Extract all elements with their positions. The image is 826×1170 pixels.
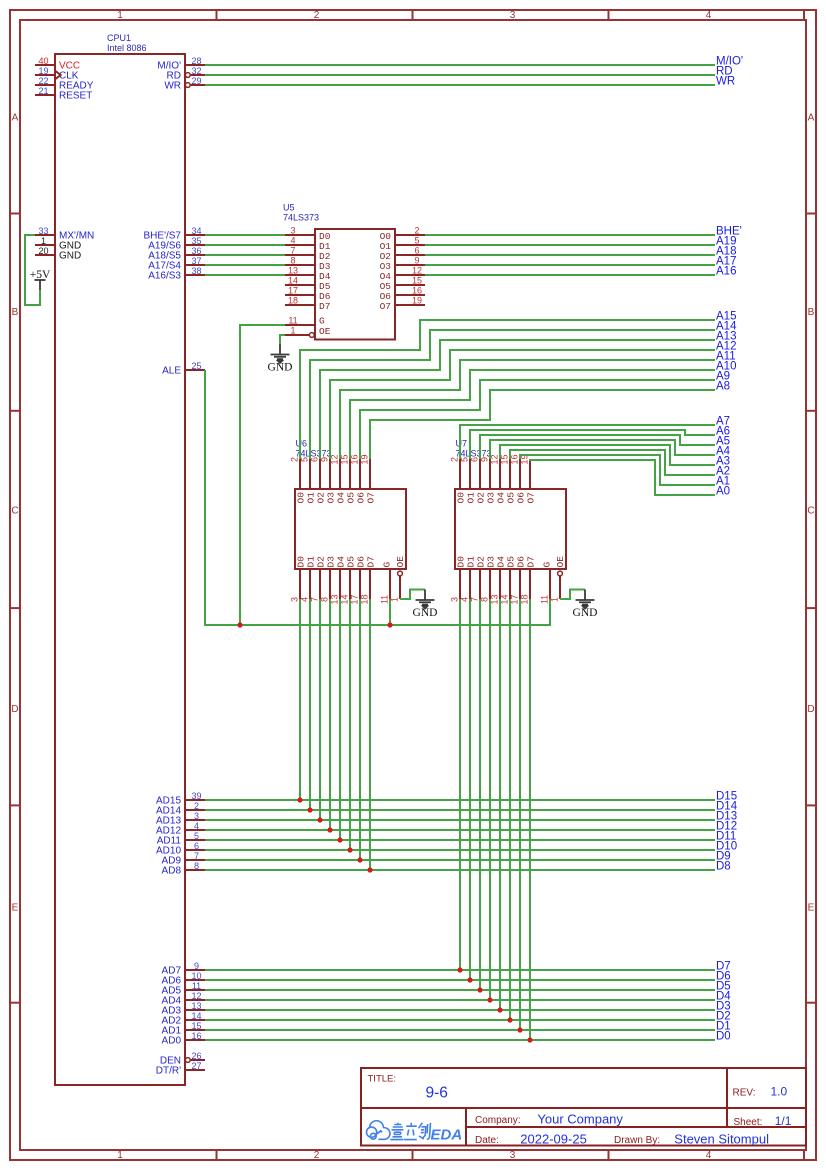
wire ALE from CPU1 pin 25 to U7 G [205,370,550,625]
CPU1 pin 27 DT/R' (right) [185,1069,205,1071]
U7 pin 14 D5 (bottom) [509,569,511,599]
svg-text:15: 15 [412,276,422,286]
U5 pin 16 O6 (right) [395,294,425,296]
svg-text:4: 4 [706,1150,712,1161]
wire A0 from label to U7 O7 [530,459,715,495]
wire U6 D6 to AD9 bus [359,599,361,860]
frame column ticks top [216,10,218,20]
wire AD8/D8 from CPU1 to label [205,869,715,871]
svg-text:10: 10 [191,971,201,981]
svg-text:DT/R': DT/R' [156,1066,181,1077]
wire U7 D4 to AD3 bus [499,599,501,1010]
CPU1 pin 4 AD12 (right) [185,829,205,831]
svg-text:34: 34 [191,226,201,236]
wire A9 from label to U6 O6 [360,380,715,459]
junction AD13 at U6 D2 [317,817,322,822]
svg-text:OE: OE [395,556,406,568]
svg-text:Sheet:: Sheet: [734,1117,763,1128]
CPU1 pin 19 CLK (left) [35,74,55,76]
wire A18 net U5 O2 to label [425,254,715,256]
U5 pin 8 D3 (left) [285,264,315,266]
CPU1 pin 34 BHE'/S7 (right) [185,234,205,236]
wire U6 D2 to AD13 bus [319,599,321,820]
wire A7 from label to U7 O0 [460,425,715,459]
wire U7 OE to ground [560,590,585,600]
U5 pin 19 O7 (right) [395,304,425,306]
wire A19 net U5 O1 to label [425,244,715,246]
wire U7 D6 to AD1 bus [519,599,521,1030]
U6 pin 14 D5 (bottom) [349,569,351,599]
U7 pin 7 D2 (bottom) [479,569,481,599]
svg-text:9: 9 [194,961,199,971]
frame column ticks bottom [216,1150,218,1160]
U5 pin 3 D0 (left) [285,234,315,236]
svg-text:37: 37 [191,256,201,266]
svg-text:D7: D7 [526,556,537,567]
U7 pin 11 G (bottom) [549,569,551,599]
svg-text:WR: WR [716,76,735,88]
U6 pin 11 G (bottom) [389,569,391,599]
wire WR from CPU1 pin 29 to label [205,84,715,86]
svg-text:AD0: AD0 [162,1036,182,1047]
CPU1 pin 22 READY (left) [35,84,55,86]
CPU1 pin 37 A17/S4 (right) [185,264,205,266]
frame row ticks right [806,213,816,215]
svg-text:13: 13 [288,266,298,276]
U6 pin 8 D3 (bottom) [329,569,331,599]
svg-text:26: 26 [191,1051,201,1061]
wire A16 net CPU1 to U5 D4 [205,274,285,276]
U5 pin 1 OE (left, inverted) [285,334,309,336]
CPU1 pin 33 MX'/MN (left) [35,234,55,236]
svg-text:1: 1 [290,326,295,336]
svg-text:E: E [808,903,815,914]
wire A5 from label to U7 O2 [480,435,715,459]
junction ALE at U5 branch [237,622,242,627]
svg-text:A: A [12,113,19,124]
latch U6 74LS373 symbol body [295,489,406,569]
U6 pin 19 O7 (top) [369,459,371,489]
svg-text:G: G [542,562,553,568]
svg-text:11: 11 [540,595,550,604]
CPU1 pin 6 AD10 (right) [185,849,205,851]
svg-text:16: 16 [191,1031,201,1041]
svg-text:3: 3 [510,1150,516,1161]
svg-text:32: 32 [191,66,201,76]
CPU1 pin 7 AD9 (right) [185,859,205,861]
junction AD8 at U6 D7 [367,867,372,872]
wire A2 from label to U7 O5 [510,450,715,475]
svg-text:1.0: 1.0 [771,1084,788,1098]
wire A18 net CPU1 to U5 D2 [205,254,285,256]
U7 pin 17 D6 (bottom) [519,569,521,599]
svg-text:REV:: REV: [733,1088,756,1099]
svg-text:O7: O7 [526,492,537,503]
wire U6 OE to ground [400,590,425,600]
wire A13 from label to U6 O2 [320,340,715,459]
title block outline [361,1068,806,1146]
svg-text:TITLE:: TITLE: [368,1074,397,1085]
wire AD15/D15 from CPU1 to label [205,799,715,801]
svg-text:33: 33 [38,226,48,236]
U7 pin 5 O1 (top) [469,459,471,489]
svg-text:A8: A8 [716,381,730,393]
U6 pin 15 O5 (top) [349,459,351,489]
U6 pin 2 O0 (top) [299,459,301,489]
junction AD7 at U7 D0 [457,967,462,972]
svg-text:2: 2 [314,1150,320,1161]
U7 pin 1 OE (bottom, inverted) [559,576,561,599]
wire ALE branch U6 G [389,599,391,625]
svg-text:3: 3 [450,597,460,602]
svg-text:E: E [12,903,19,914]
svg-text:2: 2 [450,457,460,462]
wire M/IO' from CPU1 pin 28 to label [205,64,715,66]
U6 pin 3 D0 (bottom) [299,569,301,599]
title block column divider logo cell [465,1108,467,1146]
svg-text:12: 12 [412,266,422,276]
svg-text:D: D [807,704,814,715]
ground symbol GND at U7 OE [573,590,598,620]
junction AD11 at U6 D4 [337,837,342,842]
wire +5V to CPU1 pin 33 MX'/MN [25,235,40,305]
wire ALE branch U5 G [240,325,285,625]
CPU1 pin 29 WR (right) [190,84,205,86]
svg-text:OE: OE [319,326,331,337]
svg-text:12: 12 [191,991,201,1001]
svg-text:3: 3 [510,10,516,21]
wire AD14/D14 from CPU1 to label [205,809,715,811]
CPU1 pin 8 AD8 (right) [185,869,205,871]
junction AD1 at U7 D6 [517,1027,522,1032]
svg-text:1: 1 [41,236,46,246]
wire A1 from label to U7 O6 [520,455,715,485]
svg-text:G: G [382,562,393,568]
junction AD3 at U7 D4 [497,1007,502,1012]
svg-text:8: 8 [194,861,199,871]
svg-text:6: 6 [414,246,419,256]
svg-text:29: 29 [191,76,201,86]
U5 pin 15 O5 (right) [395,284,425,286]
U5 pin 13 D4 (left) [285,274,315,276]
svg-text:G: G [319,315,325,326]
svg-text:11: 11 [380,595,390,604]
U5 pin 12 O4 (right) [395,274,425,276]
svg-text:9-6: 9-6 [426,1085,448,1102]
CPU1 pin 5 AD11 (right) [185,839,205,841]
wire A17 net U5 O3 to label [425,264,715,266]
svg-text:EDA: EDA [431,1127,463,1144]
wire U6 D5 to AD10 bus [349,599,351,850]
wire A10 from label to U6 O5 [350,370,715,459]
svg-text:19: 19 [412,296,422,306]
svg-text:Steven Sitompul: Steven Sitompul [674,1132,769,1147]
svg-text:3: 3 [290,226,295,236]
svg-text:U6: U6 [296,439,308,449]
title block column divider REV/Sheet [726,1068,728,1127]
U7 pin 13 D4 (bottom) [499,569,501,599]
U5 pin 9 O3 (right) [395,264,425,266]
wire A16 net U5 O4 to label [425,274,715,276]
U6 pin 17 D6 (bottom) [359,569,361,599]
U6 pin 12 O4 (top) [339,459,341,489]
svg-text:38: 38 [191,266,201,276]
junction AD6 at U7 D1 [467,977,472,982]
wire U6 D1 to AD14 bus [309,599,311,810]
svg-text:U5: U5 [283,203,295,213]
svg-text:40: 40 [38,56,48,66]
CPU1 pin 2 AD14 (right) [185,809,205,811]
CPU1 pin 38 A16/S3 (right) [185,274,205,276]
U6 pin 4 D1 (bottom) [309,569,311,599]
svg-text:U7: U7 [456,439,468,449]
svg-text:O7: O7 [366,492,377,503]
U7 pin 15 O5 (top) [509,459,511,489]
CPU1 pin 9 AD7 (right) [185,969,205,971]
U5 pin 5 O1 (right) [395,244,425,246]
CPU1 pin 16 AD0 (right) [185,1039,205,1041]
JLCEDA logo cloud icon [367,1121,390,1140]
wire AD12/D12 from CPU1 to label [205,829,715,831]
svg-text:2: 2 [290,457,300,462]
wire AD11/D11 from CPU1 to label [205,839,715,841]
svg-text:OE: OE [555,556,566,568]
U6 pin 13 D4 (bottom) [339,569,341,599]
svg-text:GND: GND [573,607,598,619]
CPU1 pin 25 ALE (right) [185,369,205,371]
svg-text:CPU1: CPU1 [107,33,131,43]
svg-text:11: 11 [288,316,297,326]
CPU1 pin 21 RESET (left) [35,94,55,96]
wire AD9/D9 from CPU1 to label [205,859,715,861]
wire A6 from label to U7 O1 [470,430,715,459]
svg-text:GND: GND [59,251,81,262]
U5 pin 17 D6 (left) [285,294,315,296]
svg-text:9: 9 [414,256,419,266]
CPU1 pin 13 AD3 (right) [185,1009,205,1011]
svg-text:A0: A0 [716,486,730,498]
wire A11 from label to U6 O4 [340,360,715,459]
svg-text:14: 14 [288,276,298,286]
U5 pin 11 G (left) [285,324,315,326]
junction AD4 at U7 D3 [487,997,492,1002]
svg-text:13: 13 [191,1001,201,1011]
wire U6 D7 to AD8 bus [369,599,371,870]
svg-text:2: 2 [194,801,199,811]
wire BHE'/S7 net CPU1 to U5 D0 [205,234,285,236]
junction AD0 at U7 D7 [527,1037,532,1042]
svg-text:74LS373: 74LS373 [283,213,319,223]
CPU1 pin 15 AD1 (right) [185,1029,205,1031]
wire AD6/D6 from CPU1 to label [205,979,715,981]
wire U7 D0 to AD7 bus [459,599,461,970]
svg-text:28: 28 [191,56,201,66]
wire AD7/D7 from CPU1 to label [205,969,715,971]
wire U6 D4 to AD11 bus [339,599,341,840]
svg-text:C: C [11,506,18,517]
frame row ticks left [10,213,20,215]
svg-text:4: 4 [290,236,295,246]
svg-text:2: 2 [314,10,320,21]
ground symbol GND at U5 OE [268,344,293,374]
latch U7 74LS373 symbol body [455,489,566,569]
U5 pin 14 D5 (left) [285,284,315,286]
wire A3 from label to U7 O4 [500,445,715,465]
svg-text:D0: D0 [716,1031,731,1043]
U5 pin 4 D1 (left) [285,244,315,246]
svg-text:WR: WR [164,81,181,92]
svg-text:27: 27 [191,1061,201,1071]
U6 pin 7 D2 (bottom) [319,569,321,599]
CPU1 pin 14 AD2 (right) [185,1019,205,1021]
wire U7 D7 to AD0 bus [529,599,531,1040]
U7 pin 9 O3 (top) [489,459,491,489]
svg-text:15: 15 [191,1021,201,1031]
svg-text:7: 7 [290,246,295,256]
CPU1 pin 20 GND (left) [35,254,55,256]
svg-text:D7: D7 [319,301,330,312]
wire A15 from label to U6 O0 [300,320,715,459]
svg-text:AD8: AD8 [162,866,182,877]
svg-text:11: 11 [192,981,201,991]
wire U7 D3 to AD4 bus [489,599,491,1000]
wire U5 OE to ground [280,335,285,344]
wire U7 D5 to AD2 bus [509,599,511,1020]
wire U6 D3 to AD12 bus [329,599,331,830]
wire AD4/D4 from CPU1 to label [205,999,715,1001]
svg-text:A16/S3: A16/S3 [148,271,181,282]
svg-text:3: 3 [290,597,300,602]
svg-text:D: D [11,704,18,715]
svg-text:A: A [808,113,815,124]
CPU1 pin 1 GND (left) [35,244,55,246]
svg-text:21: 21 [38,86,48,96]
svg-text:Intel 8086: Intel 8086 [107,43,147,53]
+5V power symbol [30,269,51,290]
wire A17 net CPU1 to U5 D3 [205,264,285,266]
wire A4 from label to U7 O3 [490,440,715,459]
svg-text:4: 4 [706,10,712,21]
svg-text:RESET: RESET [59,91,92,102]
wire BHE'/S7 net U5 O0 to label [425,234,715,236]
CPU1 pin 39 AD15 (right) [185,799,205,801]
svg-text:A16: A16 [716,266,736,278]
svg-text:2: 2 [414,226,419,236]
wire AD2/D2 from CPU1 to label [205,1019,715,1021]
svg-text:8: 8 [290,256,295,266]
wire AD0/D0 from CPU1 to label [205,1039,715,1041]
wire AD10/D10 from CPU1 to label [205,849,715,851]
U7 pin 12 O4 (top) [499,459,501,489]
U7 pin 19 O7 (top) [529,459,531,489]
svg-text:B: B [12,307,19,318]
junction AD2 at U7 D5 [507,1017,512,1022]
svg-text:16: 16 [412,286,422,296]
svg-text:C: C [807,506,814,517]
svg-text:1/1: 1/1 [775,1114,792,1128]
svg-text:Your Company: Your Company [537,1112,623,1127]
U6 pin 18 D7 (bottom) [369,569,371,599]
U7 pin 16 O6 (top) [519,459,521,489]
CPU1 pin 40 VCC (left) [35,64,55,66]
U6 pin 9 O3 (top) [329,459,331,489]
CPU1 pin 32 RD (right) [190,74,205,76]
svg-text:22: 22 [38,76,48,86]
svg-text:D8: D8 [716,861,731,873]
CPU1 pin 3 AD13 (right) [185,819,205,821]
svg-text:18: 18 [288,296,298,306]
svg-text:35: 35 [191,236,201,246]
U5 pin 2 O0 (right) [395,234,425,236]
wire U7 D2 to AD5 bus [479,599,481,990]
U6 pin 1 OE (bottom, inverted) [399,576,401,599]
U7 pin 2 O0 (top) [459,459,461,489]
wire A8 from label to U6 O7 [370,390,715,459]
CPU1 pin 26 DEN (right) [190,1059,205,1061]
U6 pin 6 O2 (top) [319,459,321,489]
svg-text:1: 1 [117,1150,123,1161]
wire RD from CPU1 pin 32 to label [205,74,715,76]
svg-text:7: 7 [194,851,199,861]
CPU1 Intel 8086 symbol body [55,54,185,1085]
CPU1 pin 28 M/IO' (right) [185,64,205,66]
svg-text:O7: O7 [380,301,391,312]
svg-text:2022-09-25: 2022-09-25 [520,1131,587,1146]
wire AD13/D13 from CPU1 to label [205,819,715,821]
junction AD9 at U6 D6 [357,857,362,862]
U7 pin 6 O2 (top) [479,459,481,489]
svg-text:5: 5 [414,236,419,246]
svg-text:Date:: Date: [475,1135,499,1146]
CPU1 pin 11 AD5 (right) [185,989,205,991]
junction AD10 at U6 D5 [347,847,352,852]
wire A14 from label to U6 O1 [310,330,715,459]
junction ALE at U6 branch [387,622,392,627]
svg-text:36: 36 [191,246,201,256]
wire A19 net CPU1 to U5 D1 [205,244,285,246]
wire AD1/D1 from CPU1 to label [205,1029,715,1031]
svg-text:20: 20 [38,246,48,256]
svg-text:25: 25 [191,361,201,371]
svg-text:Company:: Company: [475,1115,521,1126]
svg-text:14: 14 [191,1011,201,1021]
svg-text:39: 39 [191,791,201,801]
wire U7 D1 to AD6 bus [469,599,471,980]
junction AD5 at U7 D2 [477,987,482,992]
svg-text:17: 17 [288,286,298,296]
junction AD12 at U6 D3 [327,827,332,832]
CPU1 pin 10 AD6 (right) [185,979,205,981]
svg-text:6: 6 [194,841,199,851]
svg-text:19: 19 [38,66,48,76]
U7 pin 4 D1 (bottom) [469,569,471,599]
wire AD5/D5 from CPU1 to label [205,989,715,991]
svg-text:5: 5 [194,831,199,841]
U7 pin 3 D0 (bottom) [459,569,461,599]
CPU1 pin 35 A19/S6 (right) [185,244,205,246]
title block row divider 2 [466,1126,806,1128]
JLCEDA logo text [390,1123,430,1140]
svg-text:B: B [808,307,815,318]
wire A12 from label to U6 O3 [330,350,715,459]
svg-text:GND: GND [413,607,438,619]
svg-text:1: 1 [117,10,123,21]
title block row divider 1 [361,1107,806,1109]
junction AD15 at U6 D0 [297,797,302,802]
latch U5 74LS373 symbol body [315,229,395,340]
U6 pin 5 O1 (top) [309,459,311,489]
svg-text:ALE: ALE [162,366,181,377]
